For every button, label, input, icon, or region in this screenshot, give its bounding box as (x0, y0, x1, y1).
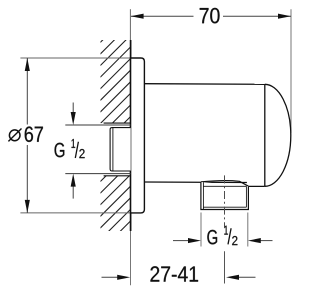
dim 70 extension line left (wall face upper) (129, 9, 131, 40)
inlet wall hole edge top (104, 122, 131, 124)
wall face line (130, 40, 132, 231)
dim G1/2 bottom left arrow (173, 240, 189, 242)
centerline (224, 175, 226, 227)
wall hatching lower (0, 30, 320, 240)
dim G1/2 bottom right arrow (260, 240, 273, 242)
dim G1/2 left arrow up (72, 186, 74, 199)
dim 27-41 label (150, 266, 198, 281)
outlet top crown + chamfer (201, 181, 248, 187)
inlet thread root box (110, 128, 131, 171)
dim O67 line (26, 58, 28, 213)
wall face extension to 27-41 dim (130, 231, 132, 285)
dim G1/2 left arrow down (72, 103, 74, 114)
outlet thread outer (201, 182, 249, 210)
body top edge (144, 83, 264, 86)
dim 70 line (131, 15, 291, 17)
outlet thread inner (203, 182, 246, 209)
dim O67 arrow down (25, 200, 30, 213)
dim 70 label (200, 8, 220, 24)
dim 70 extension line right (290, 9, 292, 133)
dim G1/2 bottom extension right (247, 213, 249, 247)
inlet G1/2 crest extension bottom (65, 173, 130, 175)
dim O67 label (9, 130, 20, 141)
body bottom edge (144, 181, 247, 184)
dim 27-41 left arrow (102, 276, 119, 278)
label G1/2 bottom (207, 230, 217, 245)
inlet wall hole edge bottom (104, 175, 131, 177)
dim O67 arrow up (25, 58, 30, 71)
flange (escutcheon) (131, 58, 145, 213)
dome junction line (264, 84, 266, 186)
dim O67 extension top (20, 57, 130, 59)
dim G1/2 bottom extension left (200, 213, 202, 247)
label G1/2 left (55, 143, 65, 158)
dome cap (265, 84, 291, 186)
dim 70 arrow right (278, 14, 291, 19)
inlet end chamfer line (112, 128, 114, 171)
inlet G1/2 crest extension top (65, 124, 130, 126)
dim 27-41 right arrow (238, 276, 256, 278)
body bottom right segment (248, 185, 264, 187)
dim O67 extension bottom (20, 212, 130, 214)
wall hatching upper (0, 30, 320, 240)
dim 70 arrow left (131, 14, 144, 19)
